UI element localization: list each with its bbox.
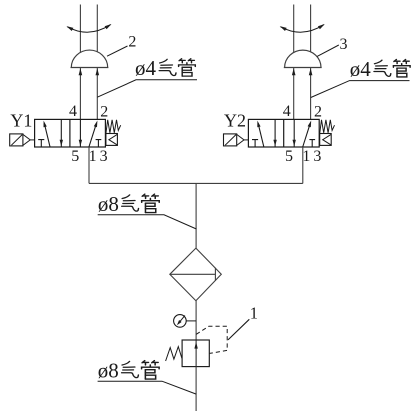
wire: left cup upper pipe (port4 side)	[79, 5, 81, 53]
suction cup 2 (dome)	[71, 50, 109, 67]
svg-text:Y2: Y2	[224, 111, 246, 131]
pressure regulator body	[182, 340, 209, 367]
solenoid pilot triangle of Y2	[237, 134, 244, 145]
wire: right cup to valve port 4 with up arrow	[293, 68, 295, 119]
valve Y2 right cell blocked port 3 (T)	[309, 140, 315, 147]
wire: valve Y1 port 1 drop	[88, 147, 90, 183]
svg-text:ø4: ø4	[350, 57, 372, 81]
svg-text:3: 3	[340, 36, 348, 53]
swivel arc with arrows above left cup	[67, 25, 110, 33]
pilot box with left triangle (spring side) of Y1	[106, 134, 118, 146]
valve Y2 left cell vertical down-arrow path	[274, 119, 276, 147]
svg-text:1: 1	[89, 148, 97, 165]
label Ø8气管 (upper) with underline and leader	[98, 192, 197, 229]
valve Y2 right cell vertical down-arrow path (4-5)	[293, 119, 295, 147]
valve Y1 right cell vertical down-arrow path (4-5)	[79, 119, 81, 147]
svg-text:5: 5	[285, 148, 293, 165]
valve Y1 right cell diagonal flow arrow (1-2)	[89, 123, 97, 147]
label 1 leader line	[228, 319, 249, 340]
label Ø4气管 (left) with underline and leader	[97, 56, 197, 97]
pressure gauge (circle with needle)	[174, 315, 187, 328]
svg-text:2: 2	[314, 104, 322, 121]
swivel arc with arrows above right cup	[281, 25, 324, 33]
wire: right cup upper pipe (port4 side)	[293, 5, 295, 53]
svg-text:Y1: Y1	[10, 111, 32, 131]
label Ø4气管 (right) with underline and leader	[311, 57, 410, 98]
svg-text:1: 1	[302, 148, 310, 165]
wire: gauge branch	[186, 320, 196, 322]
label 3 leader line	[317, 45, 339, 56]
valve Y2 left cell blocked port (T)	[252, 140, 258, 147]
wire: left cup to valve port 4 with up arrow	[79, 68, 81, 119]
valve Y1 right cell blocked port 3 (T)	[96, 140, 102, 147]
wire: left cup to valve port 2 with up arrow	[96, 68, 98, 119]
5/2 solenoid valve Y1 body	[35, 119, 106, 147]
svg-text:ø8: ø8	[98, 192, 119, 216]
svg-text:4: 4	[69, 103, 77, 120]
valve Y1 left cell diagonal flow arrow	[44, 123, 50, 147]
svg-text:3: 3	[313, 148, 321, 165]
wire: valve Y2 port 1 drop	[302, 147, 304, 183]
svg-text:ø4: ø4	[135, 56, 157, 80]
solenoid pilot triangle of Y1	[23, 134, 30, 145]
regulator internal flow line with up arrow	[195, 340, 197, 367]
5/2 solenoid valve Y2 body	[248, 119, 319, 147]
dashed pilot box of regulator	[196, 326, 227, 353]
svg-text:1: 1	[250, 303, 258, 322]
valve Y2 cell divider	[283, 119, 285, 147]
valve Y1 left cell vertical down-arrow path	[60, 119, 62, 147]
label 2 leader line	[107, 46, 128, 56]
suction cup 3 (dome)	[284, 50, 322, 67]
pilot box with left triangle (spring side) of Y2	[320, 134, 332, 146]
wire: right cup upper pipe (port2 side)	[310, 5, 312, 53]
valve Y2 left cell diagonal flow arrow	[258, 123, 264, 147]
valve Y2 right cell diagonal flow arrow (1-2)	[303, 123, 311, 147]
wire: center supply drop from manifold to filter	[195, 183, 197, 248]
wire: left cup upper pipe (port2 side)	[96, 5, 98, 53]
svg-text:2: 2	[100, 104, 108, 121]
svg-text:2: 2	[128, 33, 136, 50]
valve Y1 cell divider	[69, 119, 71, 147]
wire: filter to regulator	[195, 301, 197, 340]
solenoid actuator box of Y1	[10, 134, 23, 146]
wire: regulator to supply inlet	[195, 367, 197, 411]
solenoid actuator box of Y2	[224, 134, 237, 146]
return spring of valve Y1	[106, 120, 121, 134]
svg-text:ø8: ø8	[98, 358, 119, 382]
label Ø8气管 (lower) with underline and leader	[98, 358, 197, 394]
wire: right cup to valve port 2 with up arrow	[310, 68, 312, 119]
svg-text:5: 5	[71, 148, 79, 165]
return spring of valve Y2	[320, 120, 335, 134]
svg-text:3: 3	[100, 148, 108, 165]
valve Y1 left cell blocked port (T)	[38, 140, 44, 147]
regulator adjustment spring	[166, 347, 183, 361]
svg-text:4: 4	[283, 103, 291, 120]
air filter (diamond)	[170, 248, 222, 301]
wire: horizontal manifold joining both valves port 1	[89, 182, 303, 184]
